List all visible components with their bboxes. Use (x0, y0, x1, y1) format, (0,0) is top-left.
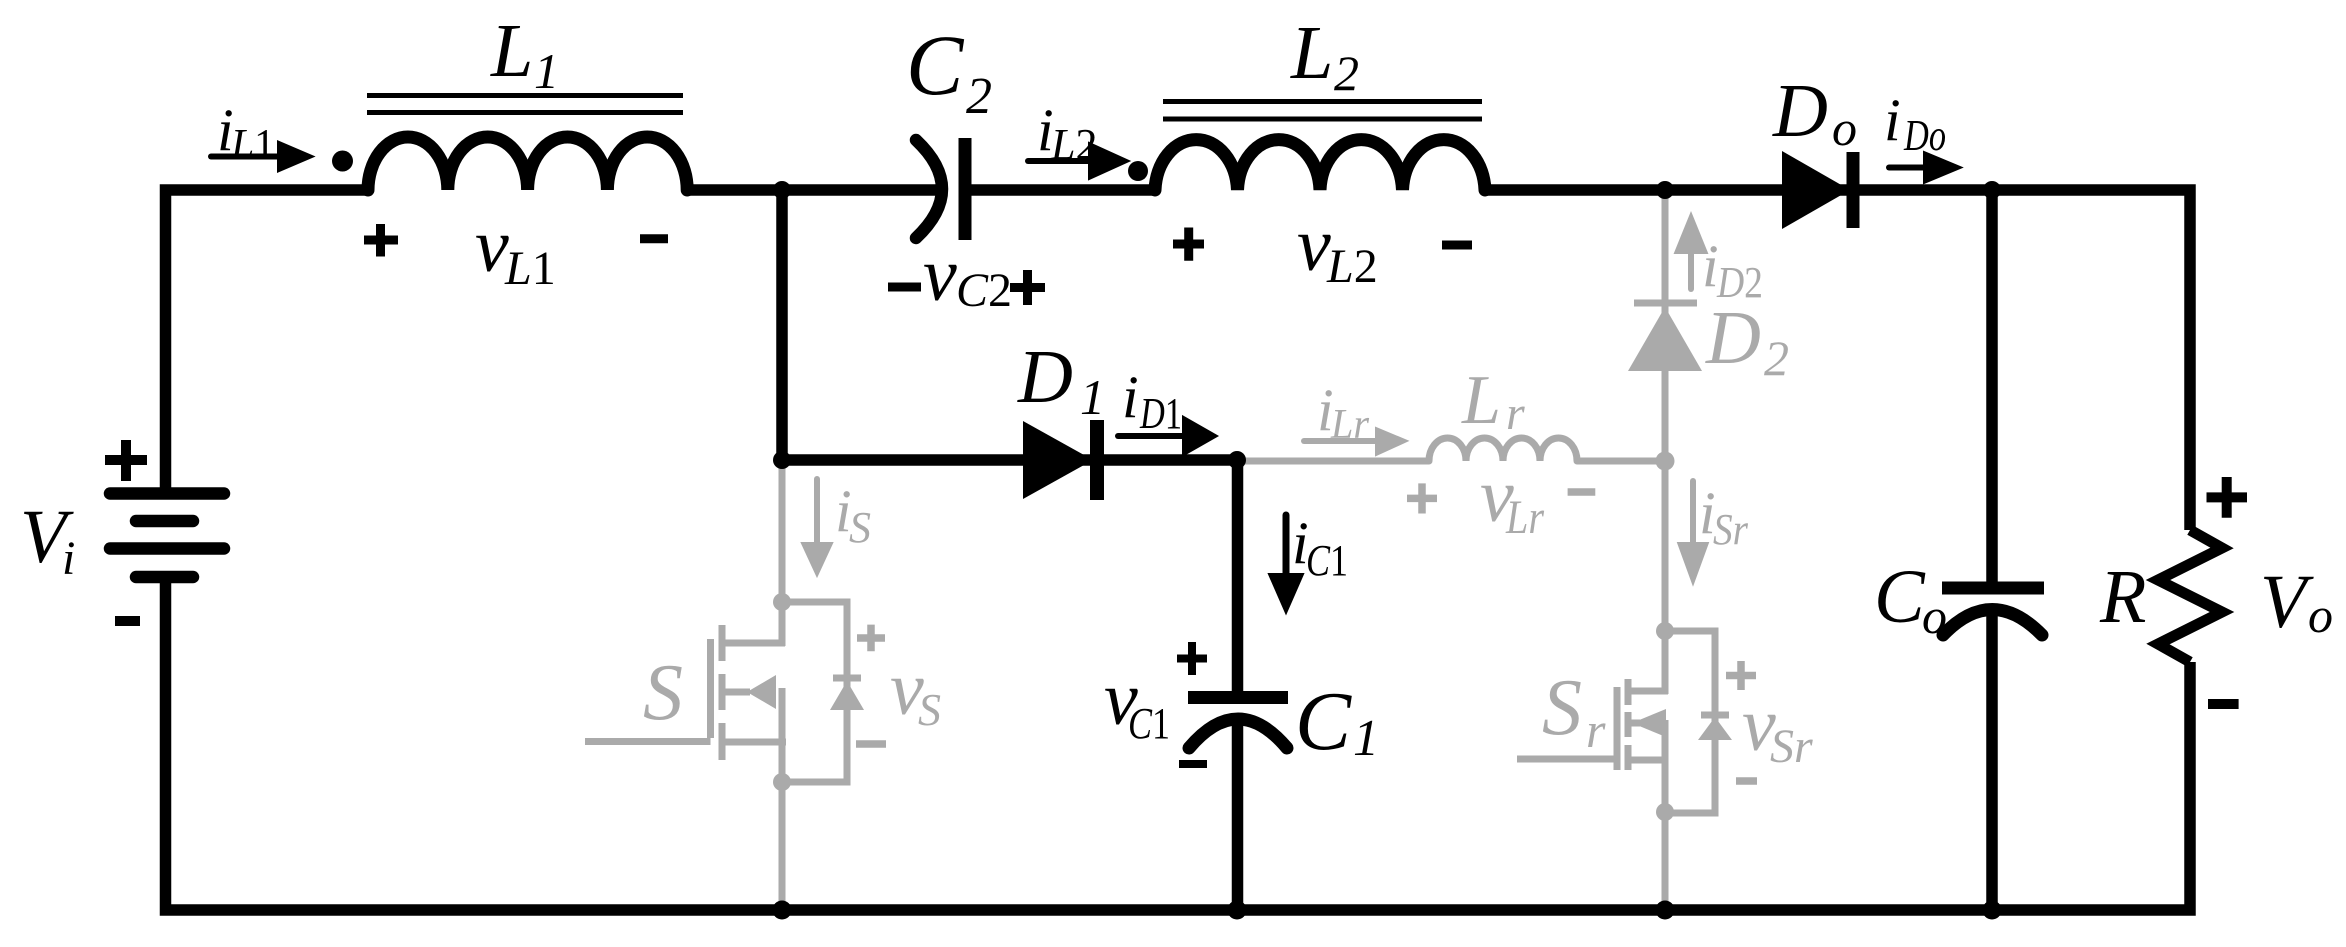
svg-text:Sr: Sr (1713, 505, 1749, 554)
svg-text:L: L (490, 9, 533, 93)
svg-text:o: o (2308, 587, 2333, 643)
svg-text:1: 1 (534, 43, 559, 99)
svg-text:L1: L1 (504, 242, 556, 295)
svg-text:v: v (1297, 203, 1331, 287)
svg-text:i: i (1884, 87, 1901, 153)
svg-text:V: V (2260, 560, 2314, 644)
svg-text:L1: L1 (230, 120, 275, 169)
svg-text:S: S (1542, 664, 1582, 752)
svg-text:S: S (918, 684, 941, 735)
svg-text:v: v (923, 233, 957, 317)
svg-text:Sr: Sr (1770, 720, 1813, 773)
svg-text:L: L (1290, 11, 1333, 95)
svg-text:C: C (1295, 675, 1352, 768)
svg-text:2: 2 (1764, 330, 1789, 386)
svg-text:S: S (643, 649, 683, 737)
svg-text:L: L (1461, 362, 1501, 439)
svg-text:2: 2 (1334, 45, 1359, 101)
svg-text:i: i (1122, 364, 1139, 430)
svg-text:L2: L2 (1050, 120, 1097, 169)
svg-text:D: D (1772, 69, 1828, 153)
svg-text:L2: L2 (1326, 240, 1378, 293)
svg-text:Do: Do (1903, 111, 1946, 160)
svg-text:C: C (906, 17, 965, 113)
svg-text:S: S (849, 503, 871, 552)
svg-text:Lr: Lr (1330, 402, 1370, 448)
svg-text:2: 2 (966, 68, 992, 125)
svg-text:D: D (1705, 296, 1761, 380)
svg-text:o: o (1922, 588, 1947, 644)
svg-text:D1: D1 (1139, 389, 1182, 438)
svg-text:C: C (1874, 555, 1926, 639)
svg-text:r: r (1506, 387, 1525, 440)
svg-text:C1: C1 (1128, 699, 1170, 748)
svg-text:Lr: Lr (1505, 491, 1544, 544)
svg-text:C1: C1 (1306, 536, 1348, 585)
svg-text:1: 1 (1353, 710, 1379, 767)
svg-text:o: o (1832, 100, 1857, 156)
svg-text:R: R (2099, 555, 2146, 639)
svg-text:1: 1 (1080, 369, 1105, 425)
svg-text:v: v (475, 204, 509, 288)
svg-text:i: i (62, 532, 75, 585)
svg-text:r: r (1586, 702, 1606, 758)
svg-text:C2: C2 (956, 264, 1012, 317)
svg-text:D: D (1017, 335, 1073, 419)
